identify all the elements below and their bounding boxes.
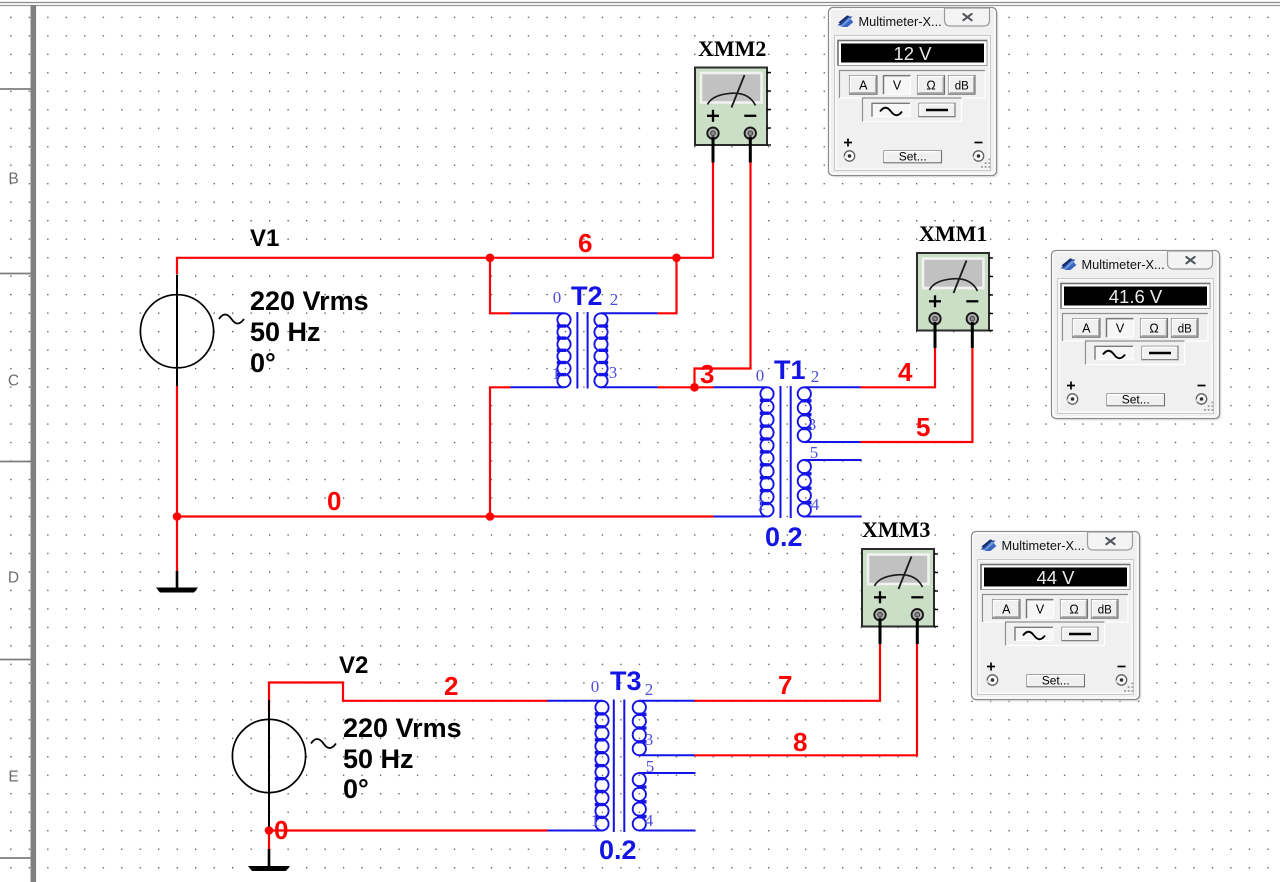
- ground GND1: [156, 571, 198, 593]
- wire net 6 branch to T2 pin 0: [490, 258, 511, 314]
- svg-text:1: 1: [552, 364, 561, 383]
- wire net 0 horizontal to T1 pin1: [177, 515, 714, 517]
- svg-text:5: 5: [810, 443, 819, 462]
- svg-text:0: 0: [553, 288, 562, 307]
- svg-text:Set...: Set...: [1122, 393, 1150, 407]
- svg-text:12 V: 12 V: [893, 43, 932, 64]
- svg-text:3: 3: [808, 415, 817, 434]
- left ruler vertical bar: [31, 5, 37, 882]
- svg-text:T3: T3: [610, 666, 642, 696]
- wire net 5 (T1 pin3 to XMM1 minus): [861, 348, 973, 442]
- svg-text:0.2: 0.2: [599, 835, 637, 865]
- svg-text:3: 3: [609, 363, 618, 382]
- junction net0 at V2: [265, 826, 274, 835]
- svg-text:XMM2: XMM2: [698, 36, 766, 61]
- svg-text:44 V: 44 V: [1036, 567, 1075, 588]
- svg-text:0: 0: [274, 815, 288, 845]
- wire net 8 (T3 pin3 to XMM3 minus): [695, 644, 918, 755]
- svg-text:4: 4: [645, 811, 654, 830]
- svg-text:3: 3: [645, 730, 654, 749]
- svg-text:Multimeter-X...: Multimeter-X...: [859, 14, 942, 29]
- svg-text:0.2: 0.2: [765, 522, 803, 552]
- svg-text:D: D: [8, 570, 19, 587]
- svg-text:Set...: Set...: [899, 150, 927, 164]
- junction net6 at T2 pin0 branch: [486, 253, 495, 262]
- svg-text:7: 7: [778, 670, 792, 700]
- svg-text:2: 2: [610, 290, 619, 309]
- svg-text:T1: T1: [774, 355, 806, 385]
- svg-text:Set...: Set...: [1042, 674, 1070, 688]
- svg-text:8: 8: [793, 727, 807, 757]
- svg-text:dB: dB: [955, 81, 969, 93]
- ruler section dividers: [0, 89, 31, 858]
- multimeter panel XMM3 reading 44 V: [972, 532, 1142, 702]
- svg-text:4: 4: [898, 357, 913, 387]
- svg-text:2: 2: [645, 680, 654, 699]
- wire net 7 (T3 pin2 to XMM3 plus): [695, 644, 881, 701]
- multimeter panel XMM1 reading 41.6 V: [1052, 251, 1222, 421]
- svg-text:50 Hz: 50 Hz: [250, 317, 321, 347]
- svg-text:V: V: [1036, 603, 1045, 617]
- svg-text:4: 4: [811, 495, 820, 514]
- multimeter icon XMM2: [695, 68, 771, 163]
- wire net 6 (V1 top horizontal): [177, 258, 713, 274]
- svg-text:Ω: Ω: [1149, 322, 1158, 336]
- svg-text:Ω: Ω: [1069, 603, 1078, 617]
- AC voltage source V1: [140, 275, 244, 387]
- svg-text:T2: T2: [571, 281, 603, 311]
- svg-text:E: E: [8, 769, 18, 786]
- svg-text:0: 0: [756, 366, 765, 385]
- svg-text:Multimeter-X...: Multimeter-X...: [1002, 538, 1085, 553]
- svg-text:2: 2: [811, 367, 820, 386]
- junction net6 at T2 pin2 branch: [672, 253, 681, 262]
- svg-text:A: A: [1082, 322, 1091, 336]
- junction net0 at V1: [173, 512, 182, 521]
- svg-text:220 Vrms: 220 Vrms: [343, 713, 462, 743]
- transformer T2: [511, 312, 658, 389]
- svg-text:B: B: [8, 171, 18, 188]
- svg-text:5: 5: [646, 757, 655, 776]
- svg-text:V: V: [1116, 322, 1125, 336]
- wire net 6 branch to T2 pin 2: [658, 258, 677, 314]
- junction net3: [690, 383, 699, 392]
- transformer T1: [714, 386, 862, 518]
- multimeter icon XMM1: [917, 253, 993, 348]
- multimeter panel XMM2 reading 12 V: [829, 8, 999, 178]
- wire net 0 horizontal V2 to T3: [269, 829, 548, 831]
- wire XMM2 plus lead down to net 6: [712, 161, 714, 258]
- wire net 3 branch XMM2 minus: [695, 161, 751, 387]
- ground GND2: [248, 849, 290, 871]
- multimeter icon XMM3: [862, 549, 938, 644]
- svg-text:50 Hz: 50 Hz: [343, 744, 414, 774]
- wire net 0 (V2 bottom to T3 pin1): [268, 826, 270, 851]
- svg-text:V2: V2: [339, 652, 368, 679]
- top frame lines: [0, 0, 1280, 6]
- wire net 3 (T2 pin3 to T1 pin0): [658, 386, 714, 388]
- junction net0 at T2 pin1: [486, 512, 495, 521]
- svg-text:0°: 0°: [343, 774, 369, 804]
- svg-text:XMM1: XMM1: [919, 221, 987, 246]
- wire net 2 (V2 to T3 pin0): [269, 683, 548, 712]
- svg-text:1: 1: [591, 811, 600, 830]
- AC voltage source V2: [232, 700, 336, 827]
- svg-text:220 Vrms: 220 Vrms: [250, 286, 369, 316]
- svg-text:3: 3: [700, 359, 714, 389]
- wire net 0 branch from T2 pin1: [490, 387, 511, 516]
- svg-text:41.6 V: 41.6 V: [1109, 286, 1163, 307]
- svg-text:1: 1: [757, 495, 766, 514]
- svg-text:Ω: Ω: [926, 79, 935, 93]
- svg-text:C: C: [8, 373, 19, 390]
- svg-text:0: 0: [327, 486, 341, 516]
- svg-text:6: 6: [578, 228, 592, 258]
- svg-text:XMM3: XMM3: [862, 517, 930, 542]
- wire net 0 (V1 bottom rail): [176, 386, 178, 573]
- transformer T3: [548, 700, 696, 833]
- svg-text:dB: dB: [1178, 324, 1192, 336]
- svg-text:A: A: [859, 79, 868, 93]
- svg-text:0: 0: [591, 677, 600, 696]
- svg-text:V1: V1: [250, 225, 279, 252]
- wire net 4 (T1 pin2 to XMM1 plus): [861, 348, 936, 387]
- svg-text:2: 2: [444, 671, 458, 701]
- svg-text:5: 5: [916, 412, 930, 442]
- svg-text:A: A: [1002, 603, 1011, 617]
- svg-text:dB: dB: [1098, 605, 1112, 617]
- svg-text:0°: 0°: [250, 348, 276, 378]
- svg-text:Multimeter-X...: Multimeter-X...: [1082, 257, 1165, 272]
- svg-text:V: V: [893, 79, 902, 93]
